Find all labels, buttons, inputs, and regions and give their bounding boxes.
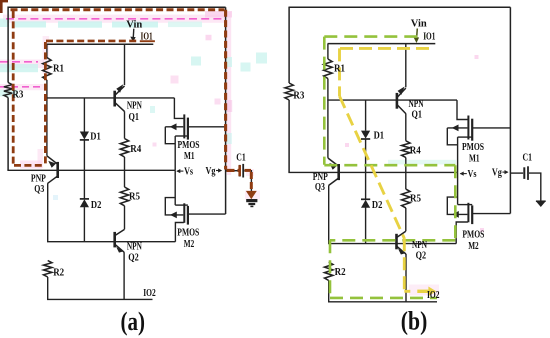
- svg-text:PMOS: PMOS: [178, 140, 200, 151]
- highlight yellow path: down: [403, 238, 406, 291]
- node IO1 rail (a): [47, 43, 154, 45]
- capacitor C1 (b): [524, 166, 528, 180]
- highlight green path: left spine: [323, 37, 326, 165]
- wire diode column top (b): [365, 100, 367, 131]
- wire Q2 base rail (b): [328, 243, 456, 245]
- diode D1 (b): [361, 131, 370, 139]
- svg-text:Q1: Q1: [129, 112, 140, 123]
- wire diode column top (a): [83, 98, 85, 132]
- svg-text:Vg: Vg: [492, 168, 502, 179]
- node IO2 rail (b): [328, 301, 437, 303]
- node Vs rail (b): [288, 171, 457, 173]
- wire C1 to ground (b): [529, 173, 541, 201]
- highlight yellow arrow at IO2: [417, 287, 436, 297]
- wire diode column bottom (b): [365, 208, 367, 244]
- svg-text:R4: R4: [130, 144, 141, 155]
- wire R2 bottom (a): [47, 277, 49, 299]
- highlight green path: mid horizontal: [324, 164, 455, 167]
- svg-text:Vs: Vs: [184, 167, 193, 178]
- svg-text:Q3: Q3: [315, 182, 325, 193]
- svg-text:C1: C1: [236, 152, 246, 163]
- wire Q1 base rail (b): [327, 99, 457, 101]
- wire border left lower (a): [7, 98, 9, 171]
- wire border left upper (b): [288, 7, 290, 83]
- svg-text:(a): (a): [121, 307, 146, 336]
- wire Q1 collector down (b): [405, 114, 407, 141]
- svg-text:D1: D1: [90, 131, 101, 142]
- diode D2 (a): [80, 199, 89, 207]
- diode D1 (a): [80, 132, 89, 140]
- svg-text:NPN: NPN: [409, 99, 425, 110]
- wire diode column mid (a): [83, 140, 85, 199]
- wire Q1 base rail (a): [46, 97, 174, 99]
- Vin arrow (a): [130, 29, 135, 42]
- resistor R4 (a): [120, 139, 128, 158]
- wire border top (a): [8, 6, 226, 8]
- svg-text:Q2: Q2: [416, 251, 427, 262]
- Vin arrow (b): [413, 29, 419, 44]
- transistor Q1 (b): [397, 87, 406, 114]
- wire R5 top (a): [124, 170, 126, 187]
- wire R1 top (b): [327, 44, 329, 59]
- svg-text:M1: M1: [184, 151, 195, 162]
- svg-text:IO2: IO2: [143, 288, 156, 299]
- svg-text:Q1: Q1: [412, 109, 423, 120]
- svg-text:Vg: Vg: [206, 166, 216, 177]
- svg-text:PMOS: PMOS: [177, 228, 199, 239]
- wire R1 bottom (b): [327, 79, 329, 158]
- resistor R3 (a): [4, 83, 12, 98]
- svg-text:R1: R1: [334, 63, 345, 74]
- wire border left upper (a): [7, 7, 9, 83]
- highlight green path: top: [324, 35, 425, 38]
- highlight green path: riser: [454, 165, 457, 240]
- highlight yellow path: top: [340, 47, 435, 50]
- diode D2 (b): [361, 199, 370, 207]
- svg-text:NPN: NPN: [127, 100, 143, 111]
- svg-text:Vs: Vs: [468, 169, 477, 180]
- transistor M1 gate bar (b): [467, 116, 469, 140]
- wire R5 top (b): [405, 172, 407, 189]
- resistor R1 (a): [43, 58, 51, 81]
- wire R1 top (a): [46, 44, 48, 57]
- jpeg artifact noise (decorative): [0, 0, 484, 296]
- wire R5 to Q2 (a): [124, 206, 126, 230]
- wire diode column mid (b): [365, 139, 367, 199]
- svg-text:PMOS: PMOS: [462, 142, 484, 153]
- transistor Q2 (b): [397, 231, 407, 254]
- svg-text:NPN: NPN: [412, 240, 428, 251]
- highlight yellow path: left vertical: [338, 48, 341, 96]
- wire Vg (a): [226, 170, 239, 172]
- svg-text:R3: R3: [293, 90, 304, 101]
- svg-text:Vin: Vin: [126, 20, 142, 31]
- resistor R3 (b): [285, 83, 293, 100]
- highlight green path: base rail: [330, 239, 455, 242]
- highlight green path: drop: [329, 240, 332, 298]
- ground (b): [536, 201, 546, 207]
- svg-text:IO1: IO1: [141, 32, 153, 43]
- svg-text:D1: D1: [374, 130, 385, 141]
- transistor M2 (a): [165, 170, 225, 241]
- transistor Q3 (a): [47, 156, 58, 183]
- svg-text:R4: R4: [410, 145, 421, 156]
- highlight red path: inner vertical: [44, 42, 47, 166]
- transistor Q3 (b): [328, 158, 339, 185]
- highlight red path: after C1: [245, 169, 252, 172]
- wire Q1 emitter up (a): [124, 44, 126, 85]
- capacitor C1 (a): [240, 164, 244, 178]
- svg-text:PNP: PNP: [31, 173, 46, 184]
- svg-text:IO1: IO1: [423, 32, 435, 43]
- svg-text:C1: C1: [523, 152, 533, 163]
- highlight yellow path: elbow: [404, 290, 410, 293]
- wire R2 bottom (b): [328, 281, 330, 302]
- wire border left lower (b): [288, 100, 290, 172]
- resistor R2 (b): [325, 262, 333, 281]
- svg-text:(b): (b): [401, 307, 428, 336]
- wire Q2 base rail (a): [47, 241, 175, 243]
- svg-text:R1: R1: [53, 63, 64, 74]
- highlight red path: C1 left plate overlay: [238, 165, 241, 176]
- wire R1 bottom (a): [46, 80, 48, 156]
- wire R4 to Vs rail (b): [405, 158, 407, 173]
- highlight green path: bottom: [330, 297, 437, 300]
- resistor R1 (b): [324, 59, 332, 79]
- label Vg (a): [206, 166, 223, 177]
- resistor R4 (b): [402, 141, 410, 158]
- resistor R2 (a): [44, 261, 52, 278]
- highlight red path: inner top: [46, 40, 137, 43]
- label Vg (b): [492, 168, 509, 179]
- wire Q2 emitter down (a): [123, 252, 125, 299]
- wire Q1 collector down (a): [124, 111, 126, 138]
- svg-text:Q3: Q3: [34, 184, 44, 195]
- wire Q2 emitter down (b): [405, 254, 407, 302]
- wire Q3 collector down (a): [47, 183, 49, 242]
- wire Q3 collector down (b): [328, 185, 330, 243]
- svg-text:R5: R5: [129, 191, 140, 202]
- ground (a): [246, 201, 257, 207]
- svg-text:R5: R5: [410, 193, 421, 204]
- svg-text:D2: D2: [372, 200, 383, 211]
- highlight red path: bottom connector: [14, 164, 45, 167]
- highlight yellow path: diagonal: [340, 96, 405, 238]
- svg-text:PMOS: PMOS: [462, 230, 484, 241]
- highlight red arrow at ground: [246, 191, 257, 199]
- node IO2 rail (a): [47, 298, 153, 300]
- wire border top (b): [289, 6, 510, 8]
- svg-text:R2: R2: [53, 267, 64, 278]
- wire Q1 emitter up (b): [405, 44, 407, 88]
- wire R5 to Q2 (b): [405, 208, 407, 231]
- wire R4 to Vs rail (a): [124, 157, 126, 170]
- svg-text:Q2: Q2: [128, 252, 139, 263]
- svg-text:M1: M1: [469, 153, 480, 164]
- node IO1 rail (b): [328, 43, 436, 45]
- highlight red path: drain rail overlay: [224, 10, 227, 170]
- svg-text:R3: R3: [12, 89, 23, 100]
- svg-text:M2: M2: [468, 241, 479, 252]
- transistor M2 (b): [447, 172, 510, 243]
- transistor M1 (a): [165, 118, 225, 171]
- wire M1 gate (a): [174, 98, 183, 119]
- wire right drain rail (a): [225, 7, 227, 214]
- transistor M1 (b): [447, 119, 510, 173]
- highlight red path: outer left: [12, 11, 15, 166]
- transistor M1 gate bar (a): [183, 114, 185, 138]
- svg-text:R2: R2: [335, 267, 346, 278]
- label Vs (b): [460, 169, 477, 180]
- transistor Q1 (a): [115, 84, 125, 111]
- svg-text:IO2: IO2: [427, 290, 440, 301]
- wire Vg (b): [510, 172, 523, 174]
- svg-text:Vin: Vin: [411, 19, 427, 30]
- wire M1 gate (b): [457, 100, 468, 119]
- resistor R5 (b): [402, 189, 410, 208]
- wire C1 to ground (a): [244, 171, 251, 193]
- svg-text:NPN: NPN: [127, 241, 143, 252]
- label Vs (a): [176, 167, 193, 178]
- transistor Q2 (a): [115, 229, 125, 252]
- highlight red path: outer top: [11, 8, 225, 11]
- node Vs rail (a): [7, 169, 175, 171]
- highlight red path: down to ground: [250, 172, 253, 190]
- svg-text:D2: D2: [91, 200, 102, 211]
- highlight red path: IO1 underline: [140, 40, 155, 42]
- svg-text:M2: M2: [184, 239, 195, 250]
- resistor R5 (a): [120, 187, 128, 206]
- highlight red path: Vg wire overlay: [227, 169, 239, 172]
- wire diode column bottom (a): [83, 207, 85, 242]
- wire right drain rail (b): [509, 7, 511, 213]
